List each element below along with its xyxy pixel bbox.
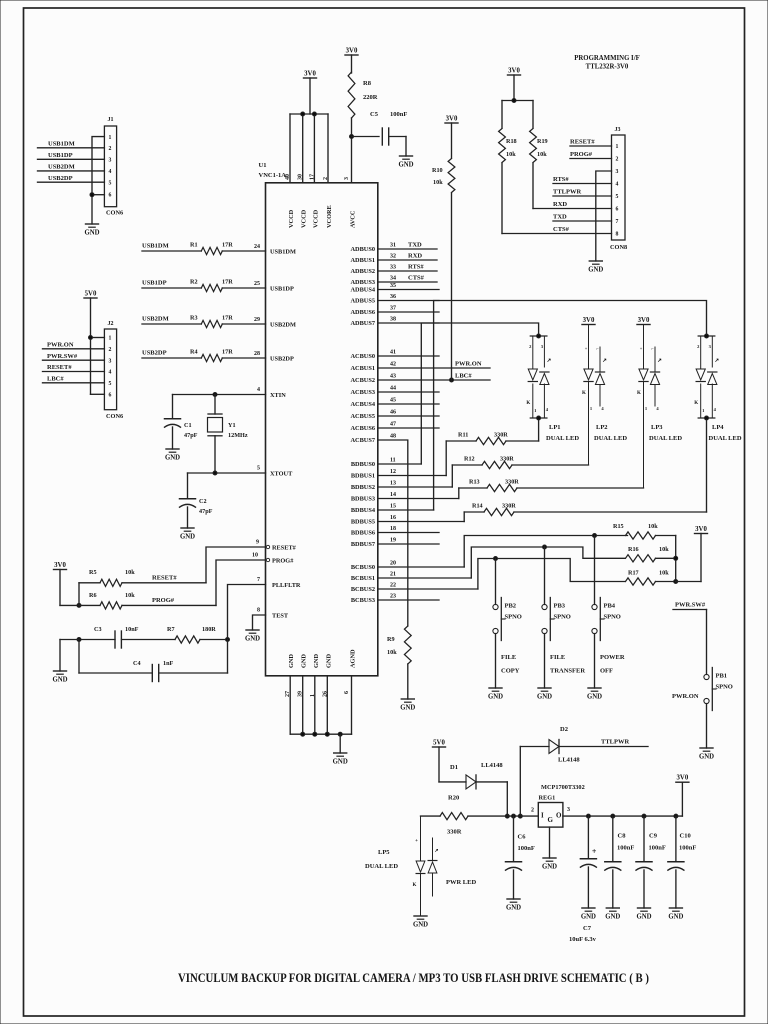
svg-text:10k: 10k bbox=[659, 570, 669, 577]
svg-text:17: 17 bbox=[309, 174, 315, 180]
svg-text:C6: C6 bbox=[518, 834, 527, 841]
wire BCBUS2 (pin 22) to R17/PB4 bbox=[351, 557, 625, 594]
pin 37 ADBUS6 stub bbox=[351, 306, 440, 317]
pin 38 ADBUS7 stub bbox=[351, 317, 440, 328]
pin 35 ADBUS4 stub bbox=[351, 283, 440, 294]
svg-text:10nF: 10nF bbox=[125, 626, 139, 633]
svg-text:GND: GND bbox=[398, 162, 413, 169]
svg-text:R15: R15 bbox=[613, 523, 624, 530]
wire 3V0 output rail bbox=[563, 782, 683, 816]
wire BCBUS0 (pin 20) to R15/PB2 bbox=[351, 534, 628, 572]
svg-text:15: 15 bbox=[390, 504, 396, 510]
svg-text:330R: 330R bbox=[505, 479, 519, 486]
power 3V0 (LP3) bbox=[637, 317, 650, 325]
wire RXD to J3.6 bbox=[533, 201, 612, 209]
svg-text:LP2: LP2 bbox=[596, 424, 608, 431]
svg-text:RTS#: RTS# bbox=[408, 264, 424, 271]
svg-text:19: 19 bbox=[390, 538, 396, 544]
svg-text:RESET#: RESET# bbox=[47, 364, 72, 371]
svg-text:RESET#: RESET# bbox=[152, 575, 177, 582]
svg-text:3V0: 3V0 bbox=[695, 526, 707, 533]
svg-text:GND: GND bbox=[605, 914, 620, 921]
ground (PB1) bbox=[699, 748, 714, 761]
svg-text:USB2DP: USB2DP bbox=[270, 356, 294, 363]
capacitor C3 10nF bbox=[77, 626, 139, 648]
resistor R6 10k (PROG# pullup) bbox=[79, 592, 216, 609]
svg-text:ADBUS7: ADBUS7 bbox=[351, 320, 376, 327]
wire 5V0 to J2.1 and J2.6 bbox=[89, 298, 105, 394]
wire main input rail bbox=[421, 815, 539, 817]
pushbutton PB4 SPNO (POWER OFF) bbox=[592, 536, 625, 689]
ground (PB4) bbox=[587, 688, 602, 701]
svg-text:BCBUS3: BCBUS3 bbox=[351, 597, 375, 604]
svg-text:VCCD: VCCD bbox=[288, 209, 295, 228]
resistor R16 10k bbox=[626, 546, 676, 562]
svg-text:POWER: POWER bbox=[600, 654, 625, 661]
svg-text:R16: R16 bbox=[628, 546, 639, 553]
svg-text:1: 1 bbox=[616, 144, 619, 150]
svg-text:17R: 17R bbox=[222, 242, 233, 249]
resistor R13 330R bbox=[459, 479, 644, 492]
wire ACBUS7 (pin 48) to R9 bbox=[351, 434, 408, 627]
svg-text:ADBUS6: ADBUS6 bbox=[351, 309, 376, 316]
svg-text:PWR.ON: PWR.ON bbox=[47, 342, 74, 349]
svg-text:47: 47 bbox=[390, 422, 396, 428]
svg-text:3V0: 3V0 bbox=[346, 48, 358, 55]
svg-text:+: + bbox=[640, 346, 643, 351]
svg-text:3: 3 bbox=[109, 358, 112, 364]
svg-text:U1: U1 bbox=[259, 162, 267, 169]
svg-text:12: 12 bbox=[390, 469, 396, 475]
dual LED LP3 bbox=[637, 325, 682, 489]
wire PWR.ON (pin 42 ACBUS1) bbox=[351, 361, 491, 373]
svg-text:C3: C3 bbox=[94, 626, 102, 633]
svg-text:6: 6 bbox=[109, 192, 112, 198]
svg-text:PB1: PB1 bbox=[716, 673, 728, 680]
svg-text:20: 20 bbox=[390, 561, 396, 567]
wire 3V0 bus to R18/R19 bbox=[502, 75, 533, 103]
svg-text:44: 44 bbox=[390, 386, 396, 392]
svg-text:PWR.ON: PWR.ON bbox=[455, 361, 482, 368]
svg-text:USB2DM: USB2DM bbox=[142, 316, 169, 323]
resistor R3 17R bbox=[142, 315, 296, 329]
svg-text:C5: C5 bbox=[370, 111, 379, 118]
pin 45 ACBUS4 stub bbox=[351, 398, 440, 409]
svg-text:21: 21 bbox=[390, 572, 396, 578]
svg-text:LP1: LP1 bbox=[549, 424, 561, 431]
svg-text:ACBUS4: ACBUS4 bbox=[351, 401, 376, 408]
svg-text:6: 6 bbox=[109, 393, 112, 399]
svg-text:10k: 10k bbox=[125, 592, 135, 599]
wire RXD (pin 32) bbox=[351, 253, 438, 265]
svg-text:3V0: 3V0 bbox=[304, 71, 316, 78]
wire BDBUS1 (pin 12) to R11 bbox=[351, 441, 446, 480]
svg-text:330R: 330R bbox=[502, 503, 516, 510]
svg-text:3: 3 bbox=[616, 169, 619, 175]
svg-text:ADBUS0: ADBUS0 bbox=[351, 246, 376, 253]
connector J2 CON6 bbox=[104, 321, 123, 420]
svg-text:USB1DP: USB1DP bbox=[48, 152, 73, 159]
IC U1 VNC1-1A body bbox=[259, 162, 378, 676]
svg-text:BCBUS1: BCBUS1 bbox=[351, 575, 375, 582]
crystal Y1 12MHz bbox=[208, 395, 248, 474]
U1 bottom pins GND/AGND bbox=[285, 649, 356, 734]
svg-text:GND: GND bbox=[245, 636, 260, 643]
svg-text:27: 27 bbox=[285, 691, 291, 697]
svg-text:32: 32 bbox=[390, 254, 396, 260]
svg-text:BDBUS0: BDBUS0 bbox=[351, 461, 375, 468]
svg-text:G: G bbox=[548, 816, 554, 824]
wire PROG# to J3.2 bbox=[570, 151, 612, 159]
svg-text:28: 28 bbox=[254, 351, 260, 357]
pin 18 BDBUS6 stub bbox=[351, 526, 439, 537]
svg-text:330R: 330R bbox=[494, 432, 508, 439]
svg-text:PB3: PB3 bbox=[554, 603, 566, 610]
wire BCBUS1 (pin 21) to R16/PB3 bbox=[351, 545, 625, 582]
svg-text:43: 43 bbox=[390, 374, 396, 380]
node AVCC junction bbox=[350, 135, 380, 139]
svg-text:23: 23 bbox=[390, 594, 396, 600]
ground (C10) bbox=[668, 908, 683, 921]
svg-text:GND: GND bbox=[325, 654, 332, 668]
wire D1 to regulator input node bbox=[505, 782, 509, 818]
svg-text:40: 40 bbox=[285, 174, 291, 180]
capacitor C7 10uF 6.3v bbox=[569, 814, 597, 943]
svg-text:220R: 220R bbox=[363, 94, 378, 101]
svg-text:K: K bbox=[526, 401, 530, 406]
svg-text:CON8: CON8 bbox=[610, 244, 627, 251]
svg-text:R7: R7 bbox=[167, 626, 175, 633]
svg-text:4: 4 bbox=[109, 169, 112, 175]
svg-text:R5: R5 bbox=[89, 569, 97, 576]
power 3V0 (VCC bus) bbox=[304, 71, 317, 79]
svg-text:2: 2 bbox=[109, 347, 112, 353]
svg-text:47pF: 47pF bbox=[184, 432, 198, 439]
svg-text:100nF: 100nF bbox=[390, 111, 407, 118]
ground (C8) bbox=[605, 908, 620, 921]
capacitor C2 47pF bbox=[180, 473, 213, 528]
ground (LP5) bbox=[413, 916, 428, 929]
svg-text:8: 8 bbox=[257, 608, 260, 614]
svg-text:5V0: 5V0 bbox=[433, 740, 445, 747]
svg-text:10k: 10k bbox=[648, 523, 658, 530]
svg-text:ADBUS1: ADBUS1 bbox=[351, 257, 376, 264]
svg-text:180R: 180R bbox=[202, 626, 216, 633]
svg-text:VNC1-1A: VNC1-1A bbox=[259, 172, 287, 179]
svg-text:DUAL LED: DUAL LED bbox=[546, 435, 579, 442]
svg-text:BCBUS0: BCBUS0 bbox=[351, 564, 375, 571]
svg-text:AVCC: AVCC bbox=[350, 210, 357, 228]
dual LED LP2 bbox=[582, 325, 627, 466]
ground (PB3) bbox=[537, 688, 552, 701]
svg-text:8: 8 bbox=[616, 232, 619, 238]
svg-text:6: 6 bbox=[616, 207, 619, 213]
svg-text:GND: GND bbox=[333, 759, 348, 766]
svg-text:R1: R1 bbox=[190, 242, 198, 249]
dual LED LP4 bbox=[694, 334, 742, 442]
svg-text:GND: GND bbox=[400, 705, 415, 712]
svg-text:USB1DM: USB1DM bbox=[270, 249, 296, 256]
resistor R2 17R bbox=[142, 279, 294, 293]
svg-text:Y1: Y1 bbox=[228, 422, 236, 429]
svg-text:34: 34 bbox=[390, 276, 396, 282]
svg-text:24: 24 bbox=[254, 244, 260, 250]
connector J1 CON6 bbox=[104, 117, 123, 217]
svg-text:ACBUS6: ACBUS6 bbox=[351, 425, 376, 432]
wire BDBUS5 (pin 16) to R14 bbox=[351, 512, 464, 526]
svg-text:38: 38 bbox=[390, 317, 396, 323]
svg-text:LBC#: LBC# bbox=[455, 373, 472, 380]
ground (PLL filter) bbox=[52, 671, 67, 684]
svg-text:41: 41 bbox=[390, 350, 396, 356]
power 3V0 (J3 pullups) bbox=[508, 68, 521, 76]
svg-text:TRANSFER: TRANSFER bbox=[550, 668, 585, 675]
wire TXD to J3.7 bbox=[553, 214, 612, 222]
svg-text:39: 39 bbox=[298, 691, 304, 697]
svg-text:10uF 6.3v: 10uF 6.3v bbox=[569, 936, 597, 943]
svg-text:R19: R19 bbox=[537, 138, 548, 145]
wire RTS# to J3.4 bbox=[553, 176, 612, 184]
dual LED LP1 bbox=[526, 334, 579, 442]
pin 47 ACBUS6 stub bbox=[351, 422, 440, 433]
svg-text:DUAL LED: DUAL LED bbox=[594, 435, 627, 442]
svg-text:O: O bbox=[556, 812, 562, 820]
ground (TEST) bbox=[245, 630, 260, 643]
svg-text:REG1: REG1 bbox=[539, 795, 556, 802]
ground (REG1) bbox=[542, 858, 557, 871]
svg-text:⌐: ⌐ bbox=[596, 346, 599, 351]
wire PROG# to pin 10 bbox=[216, 553, 294, 606]
svg-text:R11: R11 bbox=[458, 432, 468, 439]
svg-text:ADBUS4: ADBUS4 bbox=[351, 287, 376, 294]
resistor R1 17R bbox=[142, 242, 296, 256]
svg-text:RESET#: RESET# bbox=[570, 139, 595, 146]
svg-text:10k: 10k bbox=[433, 179, 443, 186]
svg-text:R18: R18 bbox=[506, 138, 517, 145]
svg-text:BDBUS1: BDBUS1 bbox=[351, 473, 375, 480]
svg-text:17R: 17R bbox=[222, 349, 233, 356]
svg-text:R3: R3 bbox=[190, 315, 198, 322]
resistor R9 10k bbox=[387, 626, 411, 699]
svg-text:USB2DP: USB2DP bbox=[48, 175, 73, 182]
connector J3 CON8 bbox=[610, 127, 627, 251]
svg-text:330R: 330R bbox=[500, 456, 514, 463]
wire LBC# to J2.5 bbox=[43, 376, 105, 383]
svg-text:J2: J2 bbox=[108, 321, 114, 327]
svg-text:DUAL LED: DUAL LED bbox=[365, 863, 398, 870]
resistor R15 10k bbox=[613, 523, 676, 539]
svg-text:CTS#: CTS# bbox=[553, 226, 570, 233]
resistor R18 10k bbox=[499, 101, 517, 234]
svg-text:33: 33 bbox=[390, 265, 396, 271]
svg-text:D1: D1 bbox=[450, 764, 458, 771]
svg-text:5V0: 5V0 bbox=[85, 291, 97, 298]
svg-text:6: 6 bbox=[344, 691, 350, 694]
svg-text:↗: ↗ bbox=[602, 358, 607, 364]
svg-text:GND: GND bbox=[413, 922, 428, 929]
svg-text:3V0: 3V0 bbox=[446, 116, 458, 123]
wire XTIN (pin 4) bbox=[173, 387, 287, 399]
wire USB1DM to J1.2 bbox=[38, 141, 105, 148]
wire USB2DM to J1.4 bbox=[38, 164, 105, 171]
svg-text:10k: 10k bbox=[125, 569, 135, 576]
svg-text:2: 2 bbox=[323, 177, 329, 180]
capacitor C1 47pF bbox=[165, 395, 198, 450]
wire REG1 ground pin bbox=[549, 827, 551, 858]
svg-text:+: + bbox=[585, 346, 588, 351]
ground (C2) bbox=[180, 528, 195, 541]
svg-text:ADBUS5: ADBUS5 bbox=[351, 298, 376, 305]
svg-text:BDBUS4: BDBUS4 bbox=[351, 507, 376, 514]
svg-text:46: 46 bbox=[390, 410, 396, 416]
svg-text:18: 18 bbox=[390, 526, 396, 532]
title text bbox=[178, 970, 649, 985]
svg-text:VCCD: VCCD bbox=[312, 209, 319, 228]
svg-text:30: 30 bbox=[298, 174, 304, 180]
wire VCC bus bbox=[290, 78, 328, 116]
svg-text:TXD: TXD bbox=[408, 242, 422, 249]
svg-text:GND: GND bbox=[581, 914, 596, 921]
svg-text:VINCULUM BACKUP FOR DIGITAL CA: VINCULUM BACKUP FOR DIGITAL CAMERA / MP3… bbox=[178, 970, 649, 985]
svg-text:C9: C9 bbox=[649, 833, 658, 840]
svg-text:10: 10 bbox=[252, 553, 258, 559]
wire CTS# to J3.8 bbox=[502, 226, 612, 234]
wire LBC# (pin 43 ACBUS2) bbox=[351, 373, 491, 385]
svg-text:12MHz: 12MHz bbox=[228, 432, 248, 439]
svg-text:GND: GND bbox=[84, 230, 99, 237]
svg-text:USB1DM: USB1DM bbox=[48, 141, 75, 148]
resistor R12 330R bbox=[452, 456, 588, 469]
svg-text:17R: 17R bbox=[222, 279, 233, 286]
svg-text:16: 16 bbox=[390, 515, 396, 521]
svg-text:4: 4 bbox=[616, 182, 619, 188]
svg-text:PROG#: PROG# bbox=[272, 558, 294, 565]
svg-text:48: 48 bbox=[390, 434, 396, 440]
svg-text:ACBUS0: ACBUS0 bbox=[351, 353, 376, 360]
text PROGRAMMING I/F header bbox=[574, 55, 640, 71]
capacitor C9 100nF bbox=[636, 814, 666, 908]
svg-text:PWR LED: PWR LED bbox=[446, 879, 476, 886]
svg-text:PROG#: PROG# bbox=[152, 597, 175, 604]
svg-text:C2: C2 bbox=[199, 498, 207, 505]
ground (PB2) bbox=[488, 688, 503, 701]
svg-text:R9: R9 bbox=[387, 636, 395, 643]
svg-text:AGND: AGND bbox=[350, 649, 357, 668]
svg-text:3V0: 3V0 bbox=[583, 317, 595, 324]
wire CTS# (pin 34) bbox=[351, 275, 438, 287]
svg-text:7: 7 bbox=[616, 219, 619, 225]
diode D2 LL4148 (TTLPWR) bbox=[518, 726, 648, 818]
svg-text:GND: GND bbox=[699, 754, 714, 761]
svg-text:CON6: CON6 bbox=[106, 210, 123, 217]
svg-text:10k: 10k bbox=[659, 546, 669, 553]
svg-text:BDBUS2: BDBUS2 bbox=[351, 484, 375, 491]
svg-text:BDBUS7: BDBUS7 bbox=[351, 541, 375, 548]
svg-text:R17: R17 bbox=[628, 570, 639, 577]
wire J1 pin1-pin6 to ground bbox=[90, 137, 104, 224]
resistor R8 220R bbox=[348, 55, 378, 137]
svg-text:45: 45 bbox=[390, 398, 396, 404]
svg-text:USB1DP: USB1DP bbox=[142, 280, 167, 287]
svg-text:ACBUS5: ACBUS5 bbox=[351, 413, 376, 420]
svg-text:2: 2 bbox=[531, 808, 534, 814]
svg-text:5: 5 bbox=[616, 194, 619, 200]
svg-text:BDBUS6: BDBUS6 bbox=[351, 530, 375, 537]
svg-text:PLLFLTR: PLLFLTR bbox=[272, 582, 301, 589]
diode D1 LL4148 bbox=[439, 747, 507, 789]
svg-text:BCBUS2: BCBUS2 bbox=[351, 586, 375, 593]
svg-text:RXD: RXD bbox=[408, 253, 422, 260]
power 5V0 (supply input) bbox=[433, 740, 446, 748]
pin 44 ACBUS3 stub bbox=[351, 386, 440, 397]
wire ground bus under U1 bbox=[290, 732, 351, 753]
svg-text:PB4: PB4 bbox=[604, 603, 616, 610]
svg-text:5: 5 bbox=[109, 180, 112, 186]
svg-text:K: K bbox=[637, 391, 641, 396]
ground (C7) bbox=[581, 908, 596, 921]
svg-text:1: 1 bbox=[109, 336, 112, 342]
svg-text:GND: GND bbox=[288, 654, 295, 668]
svg-text:47pF: 47pF bbox=[199, 508, 213, 515]
svg-text:LL4148: LL4148 bbox=[558, 757, 580, 764]
svg-text:ACBUS2: ACBUS2 bbox=[351, 377, 376, 384]
svg-text:R13: R13 bbox=[469, 479, 480, 486]
pushbutton PB2 SPNO (FILE COPY) bbox=[493, 559, 522, 689]
ground (C9) bbox=[636, 908, 651, 921]
svg-text:36: 36 bbox=[390, 294, 396, 300]
wire BDBUS3 (pin 14) to R13 bbox=[351, 488, 459, 503]
wire USB1DP to J1.3 bbox=[38, 152, 105, 159]
resistor R19 10k bbox=[530, 101, 548, 209]
svg-text:100nF: 100nF bbox=[617, 845, 634, 852]
svg-text:330R: 330R bbox=[447, 829, 462, 836]
wire TEST (pin 8) to ground bbox=[253, 608, 289, 631]
svg-text:ACBUS3: ACBUS3 bbox=[351, 389, 376, 396]
svg-text:3V0: 3V0 bbox=[54, 562, 66, 569]
svg-text:100nF: 100nF bbox=[649, 845, 666, 852]
svg-text:100nF: 100nF bbox=[518, 845, 535, 852]
svg-text:VCORE: VCORE bbox=[326, 205, 333, 228]
svg-text:XTOUT: XTOUT bbox=[270, 471, 293, 478]
svg-text:GND: GND bbox=[180, 534, 195, 541]
svg-text:3V0: 3V0 bbox=[638, 317, 650, 324]
svg-text:GND: GND bbox=[488, 694, 503, 701]
svg-text:C1: C1 bbox=[184, 422, 192, 429]
wire BDBUS0 (pin 11) to LP1 anode bbox=[351, 323, 539, 468]
svg-text:↗: ↗ bbox=[434, 848, 438, 854]
svg-text:ADBUS2: ADBUS2 bbox=[351, 268, 376, 275]
ground (C5) bbox=[398, 156, 413, 169]
svg-text:2: 2 bbox=[616, 157, 619, 163]
resistor R11 330R bbox=[446, 418, 538, 445]
ground (C6) bbox=[506, 899, 521, 912]
svg-text:USB2DM: USB2DM bbox=[270, 322, 296, 329]
svg-text:+: + bbox=[415, 839, 418, 844]
svg-text:3: 3 bbox=[344, 177, 350, 180]
capacitor C10 100nF bbox=[668, 814, 696, 908]
svg-text:FILE: FILE bbox=[550, 654, 565, 661]
power 3V0 (LP2) bbox=[582, 317, 595, 325]
svg-text:TTLPWR: TTLPWR bbox=[601, 739, 629, 746]
pushbutton PB1 SPNO (PWR.ON) bbox=[672, 668, 733, 749]
wire XTOUT (pin 5) bbox=[188, 466, 294, 478]
wire RTS# (pin 33) bbox=[351, 264, 438, 276]
svg-text:25: 25 bbox=[254, 281, 260, 287]
power 3V0 (AVCC) bbox=[345, 48, 358, 56]
svg-text:GND: GND bbox=[506, 905, 521, 912]
svg-text:R14: R14 bbox=[472, 503, 483, 510]
resistor R7 180R bbox=[122, 626, 230, 643]
